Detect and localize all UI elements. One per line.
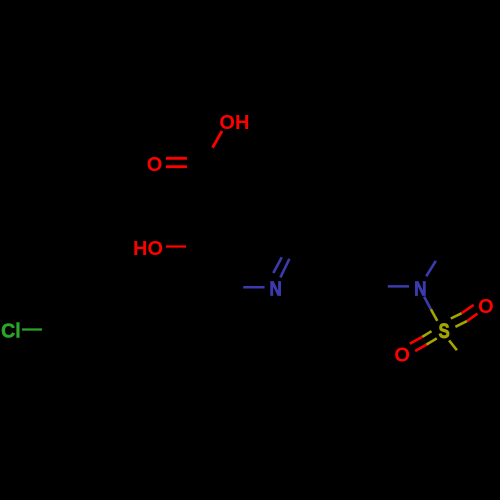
svg-text:OH: OH [219, 112, 249, 134]
svg-text:O: O [147, 154, 163, 176]
svg-text:O: O [394, 344, 410, 366]
svg-text:S: S [438, 320, 449, 343]
svg-text:N: N [269, 277, 281, 300]
svg-text:O: O [478, 296, 494, 318]
svg-text:Cl: Cl [1, 320, 21, 342]
svg-text:HO: HO [133, 238, 163, 260]
